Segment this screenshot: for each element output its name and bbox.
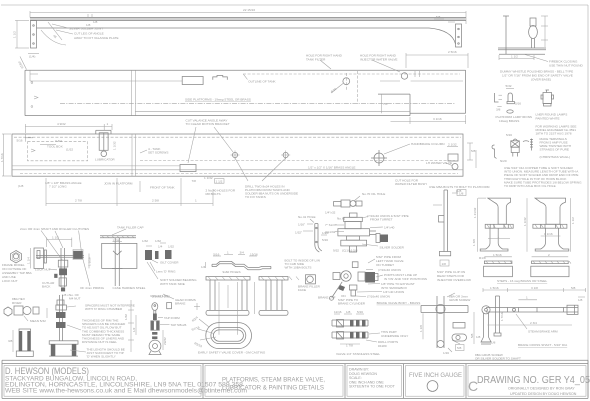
svg-text:LH WATER VALVE: LH WATER VALVE	[426, 161, 452, 165]
svg-text:5/8: 5/8	[457, 346, 462, 350]
svg-text:5/16: 5/16	[322, 238, 328, 242]
top dims	[25, 124, 112, 133]
svg-text:1/8: 1/8	[491, 341, 496, 345]
svg-text:CUT LEG OF ANGLE: CUT LEG OF ANGLE	[74, 32, 104, 36]
hole circle right	[401, 73, 407, 79]
svg-text:1/2" x 1/2" X 1/16" BRASS ANGL: 1/2" x 1/2" X 1/16" BRASS ANGLE	[308, 166, 356, 170]
valance top plate	[30, 18, 466, 21]
svg-text:1/8: 1/8	[442, 262, 447, 266]
corner bracket left	[30, 70, 38, 81]
svg-text:'D' WHEN SLIGHTLY: 'D' WHEN SLIGHTLY	[87, 355, 116, 359]
svg-text:LUBRICATOR & PAINTING DETAILS: LUBRICATOR & PAINTING DETAILS	[222, 385, 324, 392]
svg-text:22 15/16: 22 15/16	[243, 8, 255, 12]
svg-text:1 21/32: 1 21/32	[473, 207, 477, 218]
left step	[480, 198, 513, 277]
svg-text:1 1/32: 1 1/32	[523, 217, 527, 226]
svg-text:7" SLOT: 7" SLOT	[325, 223, 337, 227]
svg-text:DISTANCE NUT IS FEEL: DISTANCE NUT IS FEEL	[82, 340, 117, 344]
svg-text:R1/8: R1/8	[479, 256, 486, 260]
svg-text:RIVER: RIVER	[12, 301, 22, 305]
svg-text:1 1/8: 1 1/8	[419, 325, 423, 332]
svg-text:CASE HARDEN STEEL: CASE HARDEN STEEL	[113, 286, 146, 290]
svg-text:3 3/4: 3 3/4	[55, 139, 62, 143]
svg-text:3/8: 3/8	[496, 108, 501, 112]
leader notes left	[41, 22, 68, 45]
svg-text:EDLINGTON, HORNCASTLE, LINCOLN: EDLINGTON, HORNCASTLE, LINCOLNSHIRE, LN9…	[5, 383, 244, 389]
lamp iron profile	[492, 145, 497, 159]
svg-text:LOCK NUT: LOCK NUT	[35, 268, 51, 272]
svg-text:1 7/16: 1 7/16	[500, 312, 504, 321]
svg-text:(1/8: (1/8	[456, 189, 462, 193]
sheet top border	[1, 4, 588, 6]
svg-text:1/32: 1/32	[168, 245, 174, 249]
svg-text:ON TURRET: ON TURRET	[376, 263, 394, 267]
svg-text:1 1/2: 1 1/2	[52, 236, 59, 240]
svg-text:7/8: 7/8	[192, 179, 197, 183]
svg-text:5/8: 5/8	[571, 286, 576, 290]
joint double line	[132, 134, 136, 176]
left dim 1 1/2	[15, 21, 29, 49]
svg-text:1/8: 1/8	[476, 335, 481, 339]
svg-text:ON: ON	[341, 294, 346, 298]
svg-text:M4 NUT: M4 NUT	[69, 297, 81, 301]
svg-text:TAP FORM: TAP FORM	[164, 316, 180, 320]
svg-text:ORIGINALLY DESIGNED BY RON GRA: ORIGINALLY DESIGNED BY RON GRAY	[508, 386, 575, 390]
svg-text:FROM TURRET: FROM TURRET	[370, 218, 393, 222]
svg-text:INJECTOR OVERFLOW: INJECTOR OVERFLOW	[437, 278, 471, 282]
svg-text:JOIN IN PLATFORM: JOIN IN PLATFORM	[104, 182, 133, 186]
ratchet assembly	[49, 295, 78, 356]
svg-text:TO FIX TANKS: TO FIX TANKS	[245, 195, 266, 199]
svg-text:5/16: 5/16	[213, 253, 219, 257]
svg-text:SIDE PLATFORMS - 19swg STEEL: SIDE PLATFORMS - 19swg STEEL OR BRASS	[185, 98, 251, 102]
svg-text:GRUB SCREW: GRUB SCREW	[449, 298, 470, 302]
svg-text:(C)1/16 5/8: (C)1/16 5/8	[342, 249, 358, 253]
right side dims	[467, 143, 476, 168]
filler rect	[182, 77, 203, 85]
svg-text:TANK FILTER: TANK FILTER	[306, 58, 326, 62]
svg-text:D. HEWSON (MODELS): D. HEWSON (MODELS)	[5, 366, 89, 376]
svg-text:5/8: 5/8	[470, 333, 474, 338]
svg-text:STRANDS OF PURE: STRANDS OF PURE	[540, 148, 569, 152]
svg-text:BACK: BACK	[42, 285, 51, 289]
svg-text:2mm OR 4mm SHAFT AND ROLLER CL: 2mm OR 4mm SHAFT AND ROLLER CLUTCHES	[20, 227, 89, 231]
svg-text:2 5/16: 2 5/16	[448, 50, 457, 54]
sheet right border	[587, 5, 589, 397]
tank joint double line	[132, 70, 136, 115]
svg-text:STEPS - 16 swg BRASS OR STEEL: STEPS - 16 swg BRASS OR STEEL	[497, 279, 547, 283]
svg-text:Lens 'D' RING: Lens 'D' RING	[156, 270, 176, 274]
svg-text:3/16x32 1/32: 3/16x32 1/32	[152, 295, 170, 299]
svg-text:PLATFORMS, STEAM BRAKE VALVE,: PLATFORMS, STEAM BRAKE VALVE,	[222, 376, 325, 383]
svg-text:WEB SITE www.the-hewsons.co.u: WEB SITE www.the-hewsons.co.uk and E Mai…	[5, 389, 247, 395]
wire coil	[523, 139, 533, 151]
svg-text:1 1/4: 1 1/4	[27, 257, 31, 264]
svg-text:VALVE 1/4" STAINLESS STEEL: VALVE 1/4" STAINLESS STEEL	[336, 352, 380, 356]
svg-text:18TH TO 21ST AUG 1978: 18TH TO 21ST AUG 1978	[536, 132, 572, 136]
left dims	[2, 134, 11, 176]
svg-text:AWAY TO FIT VALANCE PLATE: AWAY TO FIT VALANCE PLATE	[74, 36, 119, 40]
svg-text:5/16: 5/16	[515, 102, 521, 106]
svg-text:9s60 HOLES: 9s60 HOLES	[223, 270, 241, 274]
hex nut	[11, 251, 22, 263]
svg-text:1/4"x32: 1/4"x32	[325, 211, 336, 215]
svg-text:29/32: 29/32	[163, 337, 167, 345]
svg-text:STEAM BRAKE ARM: STEAM BRAKE ARM	[528, 330, 558, 334]
svg-text:1 1/2: 1 1/2	[216, 179, 223, 183]
corner bracket	[25, 134, 33, 142]
svg-text:4 9/32: 4 9/32	[57, 122, 66, 126]
svg-text:1 7/16: 1 7/16	[0, 153, 4, 162]
svg-text:(1/4): (1/4)	[29, 55, 35, 59]
svg-text:15/16: 15/16	[250, 253, 258, 257]
svg-text:7/8: 7/8	[383, 102, 388, 106]
svg-text:1/32: 1/32	[142, 239, 148, 243]
frame + shaft	[34, 248, 84, 287]
svg-text:1: 1	[195, 199, 197, 203]
dash-dot tank line	[60, 103, 455, 105]
svg-text:LOCK NUT: LOCK NUT	[2, 279, 18, 283]
svg-text:1 5/16: 1 5/16	[490, 286, 499, 290]
svg-text:#4180: #4180	[378, 344, 387, 348]
svg-text:TANK FILLER CAP: TANK FILLER CAP	[117, 225, 144, 229]
svg-text:(1/32: (1/32	[66, 148, 73, 152]
svg-text:1/16: 1/16	[443, 351, 449, 355]
svg-text:1/8: 1/8	[578, 298, 583, 302]
bottom inner lines	[12, 165, 180, 167]
lubricator	[96, 130, 111, 156]
tank filter hole	[343, 78, 350, 85]
svg-text:9/32: 9/32	[333, 249, 339, 253]
svg-text:DRAWING NO. GER Y4_05: DRAWING NO. GER Y4_05	[477, 374, 590, 386]
svg-text:C: C	[468, 378, 478, 394]
svg-text:1 1/2: 1 1/2	[571, 217, 575, 224]
svg-text:1/4: 1/4	[201, 265, 206, 269]
vertical steam valve	[338, 213, 380, 252]
svg-text:7 1/2" LONG: 7 1/2" LONG	[49, 185, 67, 189]
svg-text:EARLY SAFETY VALVE COVER - G: EARLY SAFETY VALVE COVER - GM CASTING	[198, 351, 266, 355]
right step	[531, 198, 571, 277]
svg-text:FACE: FACE	[298, 288, 306, 292]
svg-text:1/4"x40 UNION: 1/4"x40 UNION	[383, 290, 404, 294]
svg-text:(CHRISTMAS WGGL): (CHRISTMAS WGGL)	[540, 155, 571, 159]
svg-text:1/32: 1/32	[124, 314, 128, 320]
right end bracket with fillet	[429, 24, 462, 47]
svg-text:STACKYARD BUNGALOW, LINCOLN RO: STACKYARD BUNGALOW, LINCOLN ROAD,	[5, 376, 137, 382]
dim line 22 19/16	[30, 11, 466, 24]
svg-text:11/16: 11/16	[334, 310, 342, 314]
svg-text:19swg BRASS: 19swg BRASS	[499, 119, 519, 123]
inner top line	[30, 80, 182, 82]
svg-text:No.70 OIL HOLE: No.70 OIL HOLE	[362, 192, 385, 196]
svg-text:MEAN 5/32: MEAN 5/32	[30, 319, 46, 323]
svg-text:UNDERSIDE ONLY: UNDERSIDE ONLY	[381, 334, 408, 338]
svg-text:1/8: 1/8	[346, 310, 351, 314]
left arm	[481, 313, 491, 344]
svg-text:1: 1	[107, 122, 109, 126]
svg-text:2 3/4: 2 3/4	[530, 321, 537, 325]
cylinder	[16, 329, 33, 357]
side arm piece	[494, 296, 501, 336]
dim 2 5/16	[406, 53, 468, 68]
svg-text:BRAKE OFF: BRAKE OFF	[318, 296, 336, 300]
svg-text:WITH 10BA BOLTS: WITH 10BA BOLTS	[285, 266, 312, 270]
svg-text:OUTLINE OF TANK: OUTLINE OF TANK	[248, 80, 276, 84]
svg-text:TAP 5/8x26: TAP 5/8x26	[171, 323, 187, 327]
svg-text:TOOL BOX: TOOL BOX	[47, 145, 63, 149]
svg-text:UPDATED DESIGN BY DOUG HEWSON: UPDATED DESIGN BY DOUG HEWSON	[510, 392, 577, 396]
svg-text:(OVER BASE): (OVER BASE)	[531, 78, 551, 82]
whistle	[506, 88, 514, 90]
svg-text:1 3/8: 1 3/8	[472, 239, 476, 246]
svg-text:WITH TANK SIDE: WITH TANK SIDE	[160, 282, 185, 286]
svg-text:3/4: 3/4	[240, 251, 245, 255]
svg-text:BRAKE: BRAKE	[175, 302, 186, 306]
svg-text:BRAKE VALVE BODY - BRASS: BRAKE VALVE BODY - BRASS	[377, 301, 421, 305]
svg-text:1 7/8: 1 7/8	[113, 239, 120, 243]
svg-text:(7/16x40 UNION: (7/16x40 UNION	[378, 268, 401, 272]
svg-text:1/32": 1/32"	[295, 231, 302, 235]
svg-text:2: 2	[548, 253, 550, 257]
svg-text:WATER FILTER BUSH: WATER FILTER BUSH	[395, 182, 427, 186]
crosshair holes	[231, 151, 291, 182]
tank set screws	[140, 150, 147, 153]
svg-text:1/32: 1/32	[155, 239, 161, 243]
svg-text:FRONT OF TANK: FRONT OF TANK	[150, 185, 176, 189]
notch	[213, 75, 228, 79]
svg-text:1 1/32: 1 1/32	[204, 176, 213, 180]
left bracket	[31, 21, 37, 49]
svg-text:1/2: 1/2	[132, 327, 136, 332]
svg-text:M8 BOLTS: M8 BOLTS	[206, 192, 221, 196]
svg-text:SILVER SOLDER: SILVER SOLDER	[380, 246, 405, 250]
svg-text:N/20: N/20	[500, 159, 507, 163]
round lamp front	[541, 90, 554, 106]
svg-text:5/16: 5/16	[17, 139, 23, 143]
svg-text:1 5/16: 1 5/16	[493, 253, 502, 257]
svg-text:1/4"x40: 1/4"x40	[384, 226, 395, 230]
svg-text:TO DRIP INTO AXLE BOX OIL HOLE: TO DRIP INTO AXLE BOX OIL HOLE	[504, 184, 556, 188]
svg-text:GILT COVER: GILT COVER	[160, 261, 179, 265]
svg-text:BRAKE CYLINDER: BRAKE CYLINDER	[338, 302, 366, 306]
svg-text:USE THIN NUT ROUND: USE THIN NUT ROUND	[549, 64, 584, 68]
svg-text:HANDBRAKE COLUMN: HANDBRAKE COLUMN	[411, 142, 445, 146]
svg-text:LUBRICATOR: LUBRICATOR	[95, 158, 115, 162]
svg-text:1/4: 1/4	[158, 245, 163, 249]
svg-text:PAINTED WHITE: PAINTED WHITE	[536, 116, 560, 120]
svg-text:1 1/16: 1 1/16	[88, 257, 92, 266]
svg-text:1 1/2: 1 1/2	[511, 55, 518, 59]
svg-text:5/32: 5/32	[506, 84, 512, 88]
dashed inner top	[14, 136, 461, 138]
svg-text:1: 1	[498, 235, 500, 239]
dim 1/4 under bracket	[28, 53, 39, 55]
svg-text:SILVER SOLDER JOINT: SILVER SOLDER JOINT	[69, 27, 103, 31]
svg-text:TO CLEAR MOTION BRACKET: TO CLEAR MOTION BRACKET	[186, 122, 230, 126]
svg-text:INJECTOR WATER VALVE: INJECTOR WATER VALVE	[360, 58, 397, 62]
svg-text:2 7/8: 2 7/8	[75, 199, 82, 203]
svg-text:SIXTEENTH TO ONE FOOT: SIXTEENTH TO ONE FOOT	[349, 385, 396, 389]
diagonal leader top left	[20, 57, 27, 70]
svg-text:IN 'ON' AND 'OFF' POSITIONS: IN 'ON' AND 'OFF' POSITIONS	[384, 277, 427, 281]
svg-text:FIVE INCH GAUGE: FIVE INCH GAUGE	[409, 373, 462, 379]
7/8 vertical dim at notch	[380, 94, 382, 113]
svg-text:1 7/8: 1 7/8	[346, 344, 353, 348]
svg-text:No.41 HOLE: No.41 HOLE	[298, 215, 316, 219]
svg-text:1: 1	[227, 251, 229, 255]
labels above band2 right	[320, 60, 400, 72]
svg-text:(1/8: (1/8	[18, 184, 24, 188]
svg-text:OR SILVER SOLDER TO SHAFT: OR SILVER SOLDER TO SHAFT	[475, 357, 521, 361]
svg-text:5/16: 5/16	[357, 310, 363, 314]
svg-text:1/16": 1/16"	[298, 223, 305, 227]
svg-text:No.61: No.61	[337, 217, 346, 221]
motion bracket cutout	[180, 165, 196, 172]
svg-text:5/16: 5/16	[506, 133, 512, 137]
svg-text:2 1/32: 2 1/32	[448, 143, 457, 147]
svg-text:SET SCREWS: SET SCREWS	[148, 151, 168, 155]
svg-text:BRAKE CROSS SHAFT - 5/16" DIA: BRAKE CROSS SHAFT - 5/16" DIA	[518, 343, 568, 347]
tool box dashed	[28, 142, 88, 161]
svg-text:3 1/16: 3 1/16	[433, 117, 442, 121]
svg-text:1 1/2: 1 1/2	[13, 31, 17, 38]
svg-text:(C)1/32: (C)1/32	[325, 230, 336, 234]
svg-text:(7/16x40 UNION: (7/16x40 UNION	[367, 295, 390, 299]
3 1/16 dim below	[391, 115, 466, 124]
svg-text:3 1/8: 3 1/8	[531, 286, 538, 290]
tank end dashed	[357, 71, 359, 104]
svg-text:1 1/32: 1 1/32	[113, 141, 117, 150]
svg-text:5/8: 5/8	[471, 149, 476, 153]
svg-text:OF 4mm PRRNG: OF 4mm PRRNG	[80, 286, 105, 290]
svg-text:5/8: 5/8	[436, 15, 441, 19]
handbrake column	[371, 150, 387, 166]
svg-text:2 5/8: 2 5/8	[152, 199, 159, 203]
svg-text:WITH 'D' RING CHAMBER: WITH 'D' RING CHAMBER	[85, 307, 123, 311]
svg-text:1 1/16: 1 1/16	[544, 232, 553, 236]
svg-text:1: 1	[526, 296, 528, 300]
svg-text:3/8: 3/8	[8, 339, 13, 343]
